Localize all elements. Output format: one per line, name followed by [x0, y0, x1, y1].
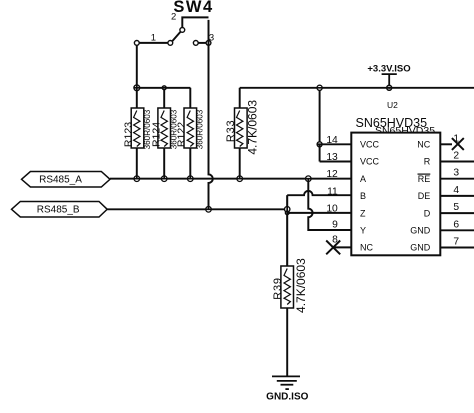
wire pin 8 stub: [333, 246, 351, 248]
svg-text:R123: R123: [123, 122, 135, 147]
wire switch pin1 down to resistor bus: [136, 46, 138, 86]
resistor R124: [158, 90, 171, 176]
svg-text:GND: GND: [410, 243, 431, 253]
switch SW4 pin 3 contact circle: [193, 41, 198, 46]
svg-text:1: 1: [151, 33, 156, 44]
resistor R122 reference label: [176, 122, 188, 147]
svg-text:VCC: VCC: [360, 157, 380, 167]
svg-text:A: A: [360, 174, 366, 184]
switch SW4 pin 3 stub wire: [198, 42, 206, 44]
svg-text:360R/0603: 360R/0603: [195, 109, 204, 149]
svg-text:R124: R124: [150, 122, 162, 147]
resistor R33: [235, 88, 248, 176]
svg-text:VCC: VCC: [360, 140, 380, 150]
wire pin 1 stub: [440, 143, 452, 145]
svg-text:8: 8: [332, 235, 338, 246]
svg-text:+3.3V.ISO: +3.3V.ISO: [367, 64, 410, 75]
svg-text:13: 13: [326, 152, 338, 163]
svg-text:DE: DE: [418, 191, 431, 201]
switch SW4 pin 2 number label: [171, 12, 176, 23]
svg-text:SW4: SW4: [173, 0, 213, 16]
switch SW4 label: [173, 0, 213, 16]
port RS485_B text: [37, 204, 80, 215]
switch SW4 pin 1 number label: [151, 33, 156, 44]
svg-text:GND: GND: [410, 226, 431, 236]
node R122 bottom junction circle: [188, 176, 194, 182]
svg-text:R: R: [424, 157, 431, 167]
IC U2 right pin numbers: [453, 133, 459, 247]
svg-text:RS485_A: RS485_A: [39, 174, 82, 185]
svg-text:4.7K/0603: 4.7K/0603: [294, 258, 308, 313]
resistor R123: [131, 91, 144, 176]
wire pin 3 RE: [440, 178, 474, 180]
svg-text:11: 11: [327, 186, 338, 197]
resistor R124 value label 360R/0603: [169, 109, 178, 149]
no-connect X on pin 1: [452, 138, 464, 150]
resistor R123 reference label: [123, 122, 135, 147]
svg-text:2: 2: [453, 151, 459, 162]
ground GND.ISO label: [266, 391, 308, 402]
wire pin 5 D: [440, 212, 474, 214]
svg-text:5: 5: [453, 202, 459, 213]
svg-text:4.7K/0603: 4.7K/0603: [246, 100, 260, 155]
wire pin 4 DE: [440, 195, 474, 197]
switch SW4 pin 3 junction circle: [206, 41, 211, 46]
IC U2 part name SN65HVD35: [356, 116, 428, 130]
node resistor bus left junction circle: [134, 85, 140, 91]
svg-text:RS485_B: RS485_B: [37, 204, 80, 215]
svg-text:9: 9: [332, 220, 338, 231]
svg-text:U2: U2: [387, 100, 398, 110]
wire switch pin2/3 node down to RS485_B with hop over RS485_A: [209, 20, 213, 207]
svg-text:3: 3: [209, 33, 214, 44]
switch SW4 pin 2 contact circle: [180, 28, 185, 33]
svg-text:10: 10: [326, 204, 338, 215]
wire A branch vertical to pin 9 Y with hop over pin10 wire: [308, 181, 351, 230]
node RS485_B end junction circle: [285, 207, 290, 212]
svg-text:3: 3: [453, 168, 459, 179]
wire pin 7 GND: [440, 247, 474, 249]
switch SW4 pin 1 wire: [139, 42, 167, 44]
IC U2 left pin names: [360, 140, 380, 253]
switch SW4 lever: [172, 32, 180, 41]
svg-text:Y: Y: [360, 226, 366, 236]
wire pin 13 stub: [320, 161, 352, 163]
svg-text:4: 4: [453, 185, 459, 196]
svg-text:14: 14: [326, 135, 338, 146]
svg-text:2: 2: [171, 12, 176, 23]
node pin10 start junction circle: [285, 211, 289, 215]
switch SW4 pin 3 number label: [209, 33, 214, 44]
IC U2 RE overline: [418, 173, 431, 175]
switch SW4 pin 2 top wire: [182, 17, 208, 27]
IC U2 value SN65HVD35: [375, 125, 435, 137]
svg-text:GND.ISO: GND.ISO: [266, 391, 308, 402]
resistor R39 value label 4.7K/0603: [294, 258, 308, 313]
wire +3.3V rail: [240, 87, 474, 89]
switch SW4 pivot contact circle: [168, 41, 173, 46]
svg-text:NC: NC: [360, 243, 373, 253]
resistor R122: [184, 88, 197, 176]
svg-text:B: B: [360, 191, 366, 201]
junction dot power stem on rail: [387, 85, 392, 90]
wire pin 2 R: [440, 161, 474, 163]
switch SW4 pin 1 terminal circle: [134, 41, 139, 46]
IC U2 reference designator label: [387, 100, 398, 110]
node R124 top junction circle: [162, 86, 166, 90]
port RS485_A: [22, 172, 111, 188]
ground GND.ISO symbol: [272, 376, 300, 389]
resistor R123 value label 360R/0603: [143, 109, 152, 149]
svg-text:R122: R122: [176, 122, 188, 147]
node R123 bottom junction circle: [134, 176, 140, 182]
wire pin 11 B with hop over A branch: [287, 191, 351, 195]
resistor R39 reference label: [272, 277, 284, 300]
wire RS485_B to junction: [107, 208, 284, 210]
IC U2 right pin names: [410, 140, 431, 253]
svg-text:RE: RE: [418, 174, 431, 184]
svg-text:R33: R33: [225, 120, 237, 143]
IC U2 left pin numbers: [326, 135, 338, 246]
svg-text:7: 7: [453, 237, 459, 248]
wire pin 14 stub: [317, 144, 351, 161]
IC U2 body: [351, 133, 440, 256]
resistor R122 value label 360R/0603: [195, 109, 204, 149]
wire resistor top bus: [140, 87, 191, 89]
wire pin 6 GND: [440, 229, 474, 231]
power +3.3V.ISO symbol bar and stem: [382, 74, 397, 88]
node R33 bottom junction circle: [237, 176, 243, 182]
svg-text:NC: NC: [417, 140, 430, 150]
resistor R33 reference label: [225, 120, 237, 143]
resistor R39: [281, 266, 294, 376]
node rail to VCC drop junction circle: [317, 85, 322, 90]
svg-text:R39: R39: [272, 277, 284, 300]
wire pin 10 Z: [289, 212, 351, 214]
wire RS485_A to pin 12 A: [110, 178, 351, 180]
no-connect X on pin 8: [326, 241, 340, 255]
wire junction chord segments: [110, 85, 351, 267]
node R124 bottom junction circle: [161, 176, 167, 182]
port RS485_A text: [39, 174, 82, 185]
wire VCC drop from rail to pins 14/13: [319, 91, 321, 145]
svg-text:Z: Z: [360, 208, 366, 218]
resistor R33 value label 4.7K/0603: [246, 100, 260, 155]
power +3.3V.ISO label: [367, 64, 410, 75]
node switch line onto RS485_B junction circle: [206, 207, 212, 213]
svg-text:D: D: [424, 208, 431, 218]
svg-text:6: 6: [453, 219, 459, 230]
node A branch junction circle: [306, 176, 312, 182]
resistor R124 reference label: [150, 122, 162, 147]
port RS485_B: [12, 202, 108, 218]
node pin14 junction circle: [317, 142, 322, 147]
wire B branch vertical down to R39: [286, 195, 288, 266]
